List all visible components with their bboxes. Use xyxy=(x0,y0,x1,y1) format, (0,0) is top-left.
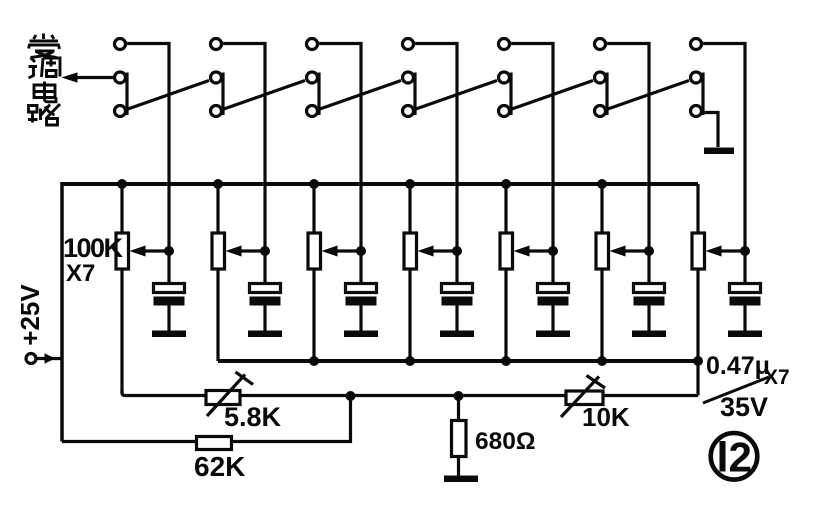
switch S7 top contact circle xyxy=(691,39,702,50)
switch S5 wafer xyxy=(499,39,594,252)
wire: S1 top contact to drop line xyxy=(124,44,169,252)
potentiometer R7 100K xyxy=(692,184,750,361)
switch S7 pole bracket xyxy=(701,73,704,116)
node: lower bus junction xyxy=(309,356,319,366)
switch S3 top contact circle xyxy=(307,39,318,50)
label 受 (shou) xyxy=(29,34,60,58)
switch S4 rotor diagonal to S5 xyxy=(413,81,497,111)
switch S6 bottom contact circle xyxy=(595,106,606,117)
switch S7 bottom contact circle xyxy=(691,106,702,117)
node: wiper junction 1 xyxy=(164,246,174,256)
node: lower bus junction xyxy=(405,356,415,366)
svg-text:5.8K: 5.8K xyxy=(224,402,282,432)
wiper arrow of R4 xyxy=(430,249,457,252)
svg-text:X7: X7 xyxy=(66,260,95,287)
switch S4 bottom contact circle xyxy=(403,106,414,117)
wire: S2 top contact to drop line xyxy=(220,44,265,252)
wire: left rail from +25V down to 62K line xyxy=(60,182,64,442)
potentiometer R2 100K xyxy=(212,184,270,361)
capacitor C1 0.47u xyxy=(152,251,186,337)
switch S3 pole bracket xyxy=(317,73,320,116)
switch S5 rotor diagonal to S6 xyxy=(509,81,593,111)
switch S7 middle contact circle xyxy=(691,72,702,83)
switch S1 rotor diagonal to S2 xyxy=(125,81,209,111)
switch S4 middle contact circle xyxy=(403,72,414,83)
switch S6 rotor diagonal to S7 xyxy=(605,81,689,111)
potentiometer R4 100K xyxy=(404,184,462,361)
node: wiper junction 4 xyxy=(452,246,462,256)
node: junction 5.8K / 62K branch xyxy=(346,391,356,401)
node: wiper junction 5 xyxy=(548,246,558,256)
switch S1 middle contact circle xyxy=(115,72,126,83)
potentiometer R3 100K xyxy=(308,184,366,361)
node: lower bus junction xyxy=(597,356,607,366)
switch S6 wafer xyxy=(595,39,690,252)
switch S6 middle contact circle xyxy=(595,72,606,83)
switch S3 middle contact circle xyxy=(307,72,318,83)
node: bus junction pot R5 xyxy=(501,179,511,189)
node: bus junction pot R1 xyxy=(117,179,127,189)
node: junction 680 ohm branch xyxy=(454,391,464,401)
switch S5 pole bracket xyxy=(509,73,512,116)
ground (C7) xyxy=(728,331,762,338)
svg-text:+25V: +25V xyxy=(15,284,45,346)
ground (C5) xyxy=(536,331,570,338)
capacitor C3 0.47u xyxy=(344,251,378,337)
node: bus junction pot R6 xyxy=(597,179,607,189)
svg-text:100K: 100K xyxy=(63,233,124,263)
switch S6 top contact circle xyxy=(595,39,606,50)
wiper arrow of R5 xyxy=(526,249,553,252)
wiper arrow of R3 xyxy=(334,249,361,252)
ground (C2) xyxy=(248,331,282,338)
svg-text:62K: 62K xyxy=(194,451,245,482)
switch S2 top contact circle xyxy=(211,39,222,50)
switch S2 wafer xyxy=(211,39,306,252)
capacitor C6 0.47u xyxy=(632,251,666,337)
ground (C4) xyxy=(440,331,474,338)
node: lower bus junction xyxy=(501,356,511,366)
wire: arrow to tuned circuit 受调电路 xyxy=(63,73,113,82)
wire: S6 top contact to drop line xyxy=(604,44,649,252)
switch S3 bottom contact circle xyxy=(307,106,318,117)
switch S5 top contact circle xyxy=(499,39,510,50)
node: wiper junction 3 xyxy=(356,246,366,256)
terminal +25V xyxy=(26,354,62,364)
switch S1 top contact circle xyxy=(115,39,126,50)
switch S1 pole bracket xyxy=(125,73,128,116)
svg-text:35V: 35V xyxy=(720,392,768,422)
capacitor C4 0.47u xyxy=(440,251,474,337)
switch S6 pole bracket xyxy=(605,73,608,116)
label 电 (dian) xyxy=(34,82,56,102)
resistor 62K xyxy=(197,437,232,450)
switch S2 middle contact circle xyxy=(211,72,222,83)
switch S4 wafer xyxy=(403,39,498,252)
wire: top bus rail connecting 100K pot tops xyxy=(62,182,698,186)
wire: S4 top contact to drop line xyxy=(412,44,457,252)
switch S1 bottom contact circle xyxy=(115,106,126,117)
wire: S3 top contact to drop line xyxy=(316,44,361,252)
node: lower bus right corner xyxy=(693,356,703,366)
svg-text:10K: 10K xyxy=(582,402,630,432)
switch S3 rotor diagonal to S4 xyxy=(317,81,401,111)
wiper arrow of R7 xyxy=(718,249,745,252)
svg-text:680Ω: 680Ω xyxy=(475,428,536,455)
switch S5 bottom contact circle xyxy=(499,106,510,117)
switch S2 bottom contact circle xyxy=(211,106,222,117)
node: wiper junction 7 xyxy=(740,246,750,256)
potentiometer R5 100K xyxy=(500,184,558,361)
capacitor C5 0.47u xyxy=(536,251,570,337)
trimmer RP1 5.8K xyxy=(206,372,253,416)
figure number 12 circled xyxy=(711,433,758,480)
wire: 62K branch xyxy=(62,396,351,442)
node: bus junction pot R3 xyxy=(309,179,319,189)
label 路 (lu) xyxy=(28,104,60,125)
resistor 680 ohm xyxy=(444,396,478,482)
node: wiper junction 2 xyxy=(260,246,270,256)
ground (C1) xyxy=(152,331,186,338)
ground (680 ohm) xyxy=(444,476,478,483)
label 调 (tiao) xyxy=(29,58,61,79)
ground (C6) xyxy=(632,331,666,338)
switch S2 rotor diagonal to S3 xyxy=(221,81,305,111)
wiper arrow of R2 xyxy=(238,249,265,252)
wire: lower bus rail connecting pot bottoms xyxy=(218,359,698,363)
switch S1 wafer xyxy=(115,39,210,252)
switch S7 wafer xyxy=(691,39,746,252)
switch S4 top contact circle xyxy=(403,39,414,50)
node: bus junction pot R4 xyxy=(405,179,415,189)
ground (switch S7) xyxy=(704,148,734,155)
svg-text:2: 2 xyxy=(729,433,752,480)
switch S3 wafer xyxy=(307,39,402,252)
node: wiper junction 6 xyxy=(644,246,654,256)
node: bus junction pot R2 xyxy=(213,179,223,189)
ground (C3) xyxy=(344,331,378,338)
potentiometer R6 100K xyxy=(596,184,654,361)
switch S5 middle contact circle xyxy=(499,72,510,83)
wiper arrow of R1 xyxy=(142,249,169,252)
potentiometer R1 100K xyxy=(116,184,174,393)
fraction slash xyxy=(703,377,769,403)
wire: S7 bottom contact to ground xyxy=(701,113,718,148)
wire: S5 top contact to drop line xyxy=(508,44,553,252)
switch S4 pole bracket xyxy=(413,73,416,116)
wire: S7 top contact to drop line xyxy=(700,44,745,252)
switch S2 pole bracket xyxy=(221,73,224,116)
wiper arrow of R6 xyxy=(622,249,649,252)
trimmer RP2 10K xyxy=(561,376,605,418)
wire: R1 bottom feed line with 5.8K and 10K xyxy=(122,391,698,396)
capacitor C7 0.47u xyxy=(728,251,762,337)
svg-text:0.47μ: 0.47μ xyxy=(706,352,770,380)
capacitor C2 0.47u xyxy=(248,251,282,337)
wire: right side drop to 10K line xyxy=(696,361,699,396)
